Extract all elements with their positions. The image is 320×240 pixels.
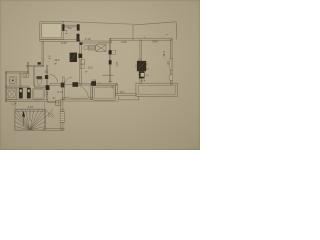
south wall right-mid [116, 94, 137, 96]
niche top wall [63, 24, 80, 26]
stair arrow head [22, 111, 25, 117]
pier WC corner [45, 75, 48, 79]
vestibule bottom wall [44, 128, 64, 130]
stair fan treads [15, 109, 45, 130]
WC bowl [37, 79, 41, 84]
kitchen wall pier top [79, 42, 82, 44]
main top wall right segment [80, 41, 111, 43]
niche jamb left [62, 24, 64, 31]
main top wall left segment [40, 40, 80, 42]
pier P2 [91, 81, 96, 86]
shower square [7, 88, 17, 99]
subtle frame vignette [1, 1, 200, 150]
room A east wall [91, 84, 93, 100]
stove [89, 46, 95, 50]
svg-text:1,0: 1,0 [45, 74, 48, 78]
svg-text:3.67: 3.67 [61, 41, 67, 45]
black pier complex right [46, 85, 50, 90]
black tick corridor top [38, 62, 41, 64]
corridor door arc [50, 75, 58, 83]
svg-text:2.19: 2.19 [85, 37, 91, 41]
washer circle [10, 77, 16, 83]
vestibule west faint line [43, 102, 45, 129]
faint top wall [62, 21, 133, 24]
wall x140 upper [140, 40, 141, 61]
window inset in top wall [98, 41, 109, 43]
x-box table [96, 45, 106, 52]
room A south window [70, 97, 88, 99]
svg-text:3.84: 3.84 [152, 39, 158, 43]
room top-left inner [42, 24, 62, 38]
right outer wall [170, 40, 172, 85]
niche hook marks [67, 28, 73, 29]
terrace outer [93, 86, 116, 100]
vestibule top wall [48, 101, 56, 103]
counter box 2 [80, 64, 84, 68]
window 1 right wall [170, 59, 173, 71]
wall y66 corridor top [27, 66, 44, 67]
room top-left outer [40, 22, 63, 40]
vestibule east wall [61, 99, 63, 129]
vestibule door box [55, 100, 61, 105]
svg-text:18,4: 18,4 [162, 51, 166, 57]
niche jamb right [77, 24, 80, 30]
complex bottom wall [5, 100, 47, 101]
door threshold [65, 84, 73, 86]
south wall at kitchen [78, 84, 91, 86]
paper background [0, 0, 200, 150]
niche pier lower right [77, 34, 80, 42]
complex partition vertical 2 [34, 67, 35, 86]
pier left of door [61, 83, 65, 88]
paper grain [0, 0, 200, 150]
vestibule scribbles [45, 109, 54, 118]
niche dots [66, 30, 67, 31]
room A west wall [63, 77, 65, 100]
counter box 1 [80, 60, 84, 64]
svg-text:3,0: 3,0 [45, 70, 49, 74]
sink [23, 74, 28, 78]
svg-text:м²: м² [85, 71, 88, 74]
complex top wall [5, 72, 28, 73]
svg-text:1,14: 1,14 [11, 102, 17, 106]
svg-text:1,2: 1,2 [45, 91, 49, 95]
stair outer rect [15, 109, 45, 130]
balcony tick [143, 37, 145, 39]
complex outer left wall [5, 72, 6, 102]
wall x110 [109, 39, 111, 82]
svg-text:м²: м² [55, 62, 58, 65]
stair connector faint [14, 102, 16, 110]
washer square [9, 77, 16, 84]
kitchen wall pier mid [78, 54, 82, 58]
end ticks wall x110 [109, 80, 113, 82]
wall x28 [28, 62, 29, 72]
step wall x116 [116, 84, 118, 94]
room A door arc [80, 86, 88, 97]
kitchen west wall [80, 43, 82, 85]
vestibule hatch window [60, 112, 64, 123]
right room C outer [136, 83, 178, 96]
svg-text:2,67: 2,67 [28, 105, 34, 109]
black bar 2 [27, 88, 31, 99]
svg-text:10,7: 10,7 [119, 90, 125, 94]
tick crossing wall x110 [102, 74, 114, 76]
pier 2 on wall x110 [109, 60, 112, 64]
svg-text:12,6: 12,6 [88, 66, 93, 69]
pier on wall x110 [109, 50, 112, 54]
wall left of living room [42, 41, 43, 65]
right room C inner [138, 85, 175, 94]
south wall mid (corridor) [50, 84, 61, 86]
complex partition vertical 1 [20, 73, 21, 86]
WC tank [37, 76, 42, 79]
shaft B lower block [139, 71, 145, 78]
shower diagonal [7, 89, 16, 99]
stair center divider [29, 109, 31, 121]
complex right wall [47, 66, 48, 100]
svg-text:1,51: 1,51 [115, 61, 119, 67]
text labels [11, 34, 170, 117]
door ticks right of wall x110 [112, 51, 116, 55]
pier right of door [72, 82, 78, 87]
svg-text:2 м: 2 м [93, 80, 97, 82]
svg-text:2.06: 2.06 [121, 40, 127, 44]
stair arrow stem [23, 113, 25, 127]
window 2 right wall [170, 75, 173, 81]
stair inner top line [15, 110, 45, 112]
svg-text:4,4: 4,4 [141, 78, 145, 82]
wall x140 lower [140, 78, 141, 83]
kitchen sink circle [84, 46, 88, 50]
corridor door arc 2 [65, 77, 73, 83]
ledge line south [63, 100, 119, 102]
svg-text:4,5: 4,5 [167, 61, 170, 65]
shaft A black [70, 53, 77, 62]
balcony [133, 22, 177, 40]
black bar 1 [19, 88, 23, 99]
south wall x91-117 [91, 83, 117, 85]
shower circle [8, 90, 16, 98]
svg-text:4.9: 4.9 [47, 55, 51, 59]
svg-text:2.74: 2.74 [57, 90, 63, 94]
windowsill box [119, 96, 139, 100]
bathtub [32, 88, 44, 99]
room A south wall [63, 97, 93, 99]
complex partition horizontal [5, 86, 46, 87]
terrace inner [94, 87, 114, 98]
shaft B black [137, 61, 146, 71]
